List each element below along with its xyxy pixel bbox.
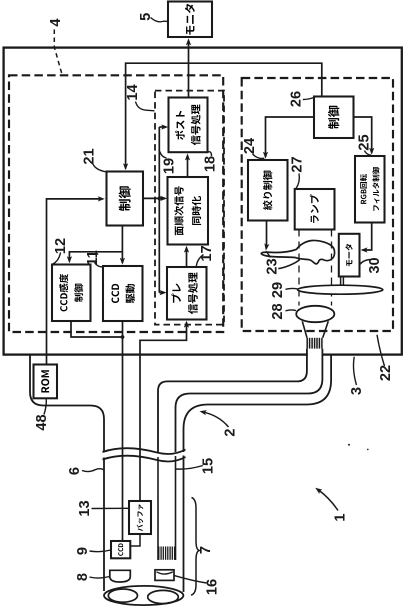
svg-text:6: 6 (67, 467, 83, 475)
svg-text:29: 29 (270, 282, 286, 298)
svg-text:24: 24 (242, 137, 258, 154)
svg-text:22: 22 (378, 365, 394, 381)
svg-text:4: 4 (48, 18, 64, 27)
svg-text:11: 11 (85, 250, 101, 265)
svg-text:2: 2 (223, 428, 239, 436)
svg-text:9: 9 (75, 547, 91, 555)
svg-text:19: 19 (161, 158, 177, 174)
svg-text:3: 3 (349, 387, 365, 395)
svg-text:27: 27 (290, 156, 306, 172)
svg-text:8: 8 (75, 573, 91, 581)
svg-text:28: 28 (270, 303, 286, 319)
svg-text:5: 5 (138, 13, 154, 21)
svg-text:23: 23 (265, 258, 281, 274)
svg-text:12: 12 (53, 238, 69, 254)
svg-text:14: 14 (125, 84, 141, 101)
svg-text:1: 1 (333, 513, 349, 521)
svg-text:48: 48 (34, 414, 50, 430)
svg-text:13: 13 (77, 500, 93, 516)
svg-text:18: 18 (203, 156, 219, 172)
svg-text:7: 7 (198, 546, 214, 554)
svg-text:21: 21 (82, 148, 98, 164)
svg-text:26: 26 (289, 91, 305, 107)
svg-text:16: 16 (205, 579, 221, 595)
svg-text:17: 17 (199, 245, 215, 261)
svg-text:25: 25 (357, 134, 373, 150)
